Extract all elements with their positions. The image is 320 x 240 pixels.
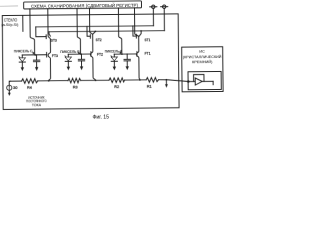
transistor FT1 gate bar <box>136 52 138 57</box>
svg-text:(a-Si/p-Si): (a-Si/p-Si) <box>1 22 19 27</box>
scan output line g3 (pixel B, to node) <box>77 8 81 54</box>
svg-text:FT3: FT3 <box>52 53 58 58</box>
scan output line g1 (pixel C, to node) <box>30 9 35 55</box>
resistor R2 <box>109 78 125 83</box>
svg-text:R3: R3 <box>73 85 78 89</box>
capacitor pixel C <box>33 55 40 71</box>
transistor ST3 gate <box>36 27 46 39</box>
svg-text:ST1: ST1 <box>144 37 150 42</box>
node junction dot C <box>34 54 36 56</box>
scan output line g4 (pixel B, ST2 drain column) <box>90 8 96 80</box>
bus lower (ST drain bias) <box>49 31 164 32</box>
svg-text:30: 30 <box>13 86 17 90</box>
svg-text:ПИКСЕЛЬ C: ПИКСЕЛЬ C <box>14 49 33 53</box>
svg-text:ST3: ST3 <box>51 38 57 43</box>
node junction dot B <box>80 53 82 55</box>
svg-text:Фиг. 15: Фиг. 15 <box>93 114 110 120</box>
svg-text:КРЕМНИЙ): КРЕМНИЙ) <box>192 59 213 64</box>
terminal T2 <box>161 5 168 31</box>
scan output line g6 (pixel A, ST1 drain column) <box>135 8 140 80</box>
IC box (crystalline silicon) <box>182 47 223 92</box>
bus upper (ST gate bias) <box>36 26 154 27</box>
transistor FT3 gate bar <box>46 52 48 57</box>
photodiode pixel B <box>65 54 72 70</box>
svg-text:FT2: FT2 <box>97 52 103 57</box>
wire R2-R1 <box>125 79 147 81</box>
svg-text:СХЕМА СКАНИРОВАНИЯ (СДВИГОВЫЙ: СХЕМА СКАНИРОВАНИЯ (СДВИГОВЫЙ РЕГИСТР) <box>31 3 139 9</box>
page artifact line <box>0 5 18 7</box>
bus junction dot ST2 <box>94 31 96 33</box>
photodiode pixel A <box>111 54 118 70</box>
wire R3-R2 <box>81 79 109 81</box>
transistor ST1 gate <box>133 26 137 38</box>
op-amp U1 <box>188 78 213 85</box>
ground junction dot <box>166 79 168 81</box>
svg-text:R4: R4 <box>27 86 32 90</box>
svg-text:FT1: FT1 <box>145 51 151 56</box>
pixel C leader arrow <box>32 51 34 54</box>
ground under current source <box>8 90 11 96</box>
wire R4-R3 <box>38 80 68 82</box>
resistor R1 <box>146 77 158 82</box>
feedback loop wire <box>194 75 204 82</box>
output resistor line <box>9 80 21 82</box>
pixel B leader arrow <box>78 52 80 55</box>
photodiode pixel C <box>19 55 26 71</box>
scan output line g5 (pixel A, to node) <box>118 8 121 54</box>
node junction dot A <box>121 53 123 55</box>
bus junction dot ST1 <box>140 30 142 32</box>
tap junction dot pixel B <box>95 80 97 82</box>
ground at R1 end <box>165 80 168 88</box>
amp input terminal dot <box>187 80 190 83</box>
capacitor pixel B <box>78 54 85 70</box>
amplifier box <box>188 71 221 89</box>
current source 30 <box>7 81 12 90</box>
ST2 drain hook to bus <box>93 31 95 34</box>
scan output line g2 (pixel C, ST3 drain column) <box>48 9 51 81</box>
glass label divider <box>22 15 24 31</box>
resistor R4 <box>22 79 38 84</box>
svg-text:ПИКСЕЛЬ B: ПИКСЕЛЬ B <box>60 50 80 54</box>
capacitor pixel A <box>124 54 131 70</box>
svg-text:R2: R2 <box>114 85 119 89</box>
scan circuit box (shift register) <box>24 1 142 9</box>
transistor FT2 gate bar <box>90 52 92 57</box>
glass substrate box <box>2 14 179 110</box>
ST1 drain hook to bus <box>139 31 141 36</box>
ST3 drain hook to bus <box>49 32 50 36</box>
resistor R3 <box>68 78 81 83</box>
node line pixel A <box>114 53 137 55</box>
wire R1 to IC <box>159 79 189 81</box>
pixel A leader arrow <box>119 51 121 54</box>
svg-text:ST2: ST2 <box>96 37 102 42</box>
svg-text:ТОКА: ТОКА <box>32 103 42 107</box>
transistor ST2 gate <box>87 26 90 38</box>
svg-text:ИС: ИС <box>199 49 205 54</box>
output tick <box>212 81 214 84</box>
tap junction dot pixel C <box>48 80 50 82</box>
svg-text:R1: R1 <box>147 85 152 89</box>
terminal T1 <box>150 5 157 26</box>
node line pixel B <box>68 53 91 55</box>
node line pixel C <box>22 54 46 56</box>
tap junction dot pixel A <box>139 79 141 81</box>
